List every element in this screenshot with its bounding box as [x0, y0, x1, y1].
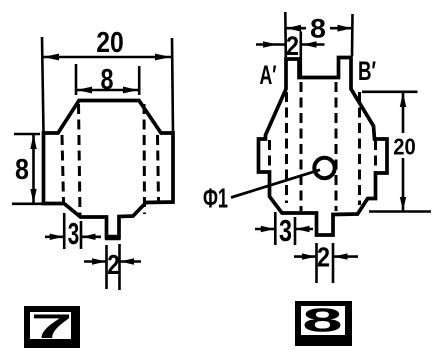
- dimension 8 left arrow up: [30, 135, 36, 150]
- svg-text:2: 2: [317, 242, 330, 273]
- svg-text:8: 8: [310, 13, 326, 43]
- dimension 8 top arrow left: [77, 87, 93, 94]
- dimension 8 left tick bottom: [12, 203, 43, 206]
- dimension 2 arrow left: [92, 258, 106, 264]
- dimension 8 left arrow down: [30, 189, 36, 203]
- dimension 2 extension line right: [118, 244, 121, 290]
- hidden body edge behind left flange: [268, 140, 271, 171]
- dimension 8 arrow left: [286, 25, 301, 32]
- front view outline: [44, 101, 174, 238]
- side view outline: [259, 58, 388, 236]
- dimension 20 arrow right: [155, 54, 171, 61]
- dimension 2 arrow right: [303, 41, 317, 47]
- dimension 20 line upper: [402, 92, 405, 133]
- leader line to hole: [231, 170, 320, 198]
- dimension 8 left tick top: [14, 133, 40, 136]
- hole circle: [314, 158, 334, 178]
- dimension 20 extension line left: [42, 37, 44, 133]
- dimension 3 arrow left: [261, 226, 275, 232]
- dimension 2 bottom extension line right: [332, 243, 335, 283]
- dimension 2 arrow line right: [301, 43, 325, 46]
- dimension 3 arrow line right: [295, 228, 313, 231]
- svg-text:7: 7: [31, 308, 73, 346]
- dimension 20 extension line right: [172, 38, 173, 133]
- dimension 8 left line: [32, 134, 35, 204]
- problem number box 8: [295, 301, 352, 346]
- dimension 20 arrow left: [43, 54, 59, 61]
- dimension 2 arrow right: [120, 258, 134, 264]
- dimension 3 arrow left: [50, 234, 64, 240]
- dimension 20 arrow up: [400, 92, 406, 107]
- svg-text:Φ1: Φ1: [203, 183, 228, 214]
- svg-text:3: 3: [68, 216, 80, 251]
- svg-text:8: 8: [101, 64, 114, 96]
- dimension 3 arrow right: [296, 226, 310, 232]
- svg-text:3: 3: [279, 213, 292, 248]
- hidden line left body edge: [62, 135, 64, 202]
- dimension 2 bottom arrow line left: [294, 255, 317, 258]
- dimension 20 line: [43, 56, 172, 59]
- dimension 2 bottom arrow line right: [333, 255, 358, 258]
- hidden line notch left wall: [300, 82, 303, 211]
- dimension 3 extension line right: [80, 221, 83, 249]
- hidden line under top-flat left end: [79, 104, 81, 215]
- dimension 3 extension line left: [274, 212, 277, 245]
- dimension 2 bottom arrow left: [302, 253, 316, 259]
- dimension 20 tick bottom: [369, 210, 431, 213]
- dimension 3 arrow line right: [81, 236, 101, 239]
- dimension 2 extension line left: [105, 245, 108, 289]
- dimension 8 line left part: [286, 27, 307, 30]
- dimension 8 top arrow right: [123, 87, 139, 94]
- dimension 20 arrow down: [400, 197, 406, 211]
- hidden line under top-flat right end: [143, 104, 147, 214]
- dimension 8 extension line right: [351, 14, 354, 56]
- hidden line right body edge: [158, 135, 159, 201]
- svg-text:A′: A′: [260, 60, 277, 90]
- dimension 8 top extension line left: [75, 64, 78, 95]
- dimension 3 extension line right: [294, 217, 297, 245]
- dimension 2 arrow line right: [120, 260, 142, 263]
- dimension 2 bottom arrow right: [334, 253, 348, 259]
- dimension 2 extension line right: [299, 32, 302, 77]
- hidden body edge behind right flange: [374, 140, 377, 172]
- svg-text:8: 8: [15, 154, 29, 186]
- dimension 3 arrow line left: [45, 236, 64, 239]
- dimension 8 extension line left: [284, 12, 287, 57]
- hidden line left tab projection: [285, 92, 288, 203]
- dimension 2 arrow left: [263, 41, 277, 47]
- dimension 8 top line: [75, 89, 139, 92]
- dimension 20 line lower: [402, 158, 405, 212]
- dimension 20 tick top: [362, 91, 418, 94]
- dimension 8 arrow right: [338, 25, 353, 32]
- svg-text:2: 2: [286, 31, 299, 61]
- dimension 8 top extension line right: [138, 66, 141, 95]
- dimension 8 line right part: [330, 27, 353, 30]
- svg-text:8: 8: [302, 302, 342, 339]
- problem number box 7: [24, 306, 80, 348]
- dimension 2 arrow line left: [256, 43, 285, 46]
- dimension 3 arrow line left: [255, 228, 275, 231]
- dimension 2 bottom extension line left: [315, 243, 318, 283]
- dimension 2 arrow line left: [84, 260, 107, 263]
- dimension 3 extension line left: [63, 213, 66, 249]
- hidden line notch right wall: [335, 82, 338, 211]
- dimension 3 arrow right: [82, 234, 96, 240]
- svg-text:20: 20: [96, 27, 124, 59]
- svg-text:2: 2: [107, 249, 120, 280]
- hidden line right tab projection: [358, 92, 361, 205]
- front view tab bottom thick edge: [105, 235, 121, 241]
- svg-text:20: 20: [393, 134, 416, 160]
- svg-text:B′: B′: [358, 56, 376, 86]
